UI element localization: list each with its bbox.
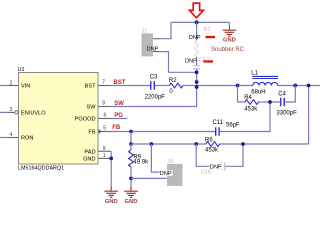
svg-text:DNP: DNP [185, 58, 197, 64]
svg-text:6: 6 [104, 113, 107, 119]
svg-text:BST: BST [85, 84, 96, 90]
node snubber/J1 junction [195, 70, 199, 74]
wire to snubber GND [228, 22, 230, 27]
svg-text:U1: U1 [18, 67, 25, 73]
C2 DNP strike [203, 60, 213, 62]
svg-text:LM5164QDDARQ1: LM5164QDDARQ1 [18, 166, 64, 172]
ground (snubber) [223, 27, 237, 37]
svg-text:DNP: DNP [189, 35, 201, 41]
svg-text:EN/UVLO: EN/UVLO [21, 111, 46, 117]
wire to J5 pin 1 [151, 144, 167, 172]
connector J5 (DNP) [167, 164, 183, 186]
svg-text:Snubber RC: Snubber RC [211, 47, 245, 53]
svg-text:R4: R4 [244, 95, 252, 101]
svg-text:453k: 453k [205, 148, 219, 154]
svg-text:J1: J1 [142, 29, 148, 35]
wire snubber chain vertical [196, 22, 198, 40]
svg-text:453k: 453k [244, 106, 258, 112]
node SW rail junctions at x=197 [195, 80, 199, 84]
connector J1 (DNP) [142, 33, 154, 56]
resistor R2 [169, 83, 183, 88]
node PAD/GND junction [109, 157, 113, 161]
svg-text:FB: FB [112, 125, 121, 131]
op-amp U1 : IC body LM5164QDDARQ1 [19, 73, 99, 165]
wire BST to C3 [111, 85, 151, 87]
pin 4 wire (RON) [0, 137, 9, 139]
svg-text:5: 5 [103, 126, 106, 132]
svg-text:3300pF: 3300pF [276, 110, 297, 116]
pin 5 stub (FB) with arrow [98, 131, 111, 133]
svg-text:0: 0 [169, 89, 173, 95]
wire C3 to R2 [155, 85, 169, 87]
svg-text:C4: C4 [278, 92, 286, 98]
svg-text:DNP: DNP [160, 171, 172, 177]
wire PAD to GND [110, 151, 112, 187]
wire divider row [131, 143, 206, 145]
svg-text:GND: GND [125, 199, 138, 205]
R1 DNP strike [205, 36, 215, 38]
svg-text:SW: SW [86, 105, 96, 111]
ground (under IC) [104, 187, 118, 198]
wire FB line [111, 131, 216, 133]
svg-text:FB: FB [88, 130, 95, 136]
node J5 branch junction [150, 142, 154, 146]
wire R2 to SW node [183, 85, 197, 87]
wire main SW rail to L1 [197, 85, 253, 87]
svg-text:GND: GND [105, 199, 118, 205]
svg-text:7: 7 [102, 80, 105, 86]
wire C11 to corner [220, 102, 270, 132]
svg-text:DNP: DNP [210, 164, 222, 170]
wire R4 to C4 [259, 101, 281, 103]
svg-text:2200pF: 2200pF [145, 95, 166, 101]
capacitor C3 [150, 81, 152, 89]
capacitor C15 (DNP, ghost) [221, 162, 223, 170]
svg-text:68uH: 68uH [251, 89, 265, 95]
wire SW [111, 70, 197, 107]
pin 9 / pin 1 stubs (PAD, GND) [98, 150, 111, 152]
svg-text:49.9k: 49.9k [133, 160, 149, 166]
wire R6 right to VOUT riser [220, 143, 309, 145]
wire PG stub [111, 118, 128, 120]
wire L1 to out [278, 85, 320, 87]
capacitor C2 (DNP, ghost) [193, 65, 200, 67]
wire J1 pin1 riser [160, 22, 171, 38]
node divider top [129, 142, 133, 146]
node C15 branch right [241, 142, 245, 146]
node L network left [236, 84, 240, 88]
svg-text:C15: C15 [201, 170, 211, 176]
ground (under R9) [124, 187, 138, 198]
svg-text:2: 2 [10, 80, 13, 86]
svg-text:RON: RON [21, 136, 33, 142]
wire top rail (snubber) [171, 21, 229, 23]
svg-text:1: 1 [103, 153, 106, 159]
wire J1 pin2 to chain [153, 51, 160, 53]
svg-text:PGOOD: PGOOD [75, 117, 96, 123]
wire C4 up to rail [285, 86, 295, 103]
capacitor C11 [215, 127, 217, 135]
wire RC damp branch left [238, 86, 245, 103]
resistor R1 (DNP, ghost) [195, 41, 199, 57]
node FB junction [129, 130, 133, 134]
svg-text:PAD: PAD [84, 149, 95, 155]
node C15 branch left [194, 142, 198, 146]
resistor R6 [206, 142, 220, 147]
node arrow junction [195, 20, 199, 24]
svg-text:8: 8 [102, 100, 105, 106]
wire SW pin riser [98, 106, 111, 108]
svg-text:J5: J5 [168, 159, 174, 165]
pin 2 wire (VIN) [0, 85, 9, 87]
resistor R4 [245, 100, 259, 105]
svg-text:VIN: VIN [21, 84, 30, 90]
pin 7 stub (BST) [98, 85, 111, 87]
node L right [293, 84, 297, 88]
svg-text:R1: R1 [204, 27, 211, 33]
node R9 bottom junction [129, 177, 133, 181]
pin 3 wire (EN/UVLO) with bubble [0, 111, 9, 113]
svg-text:56pF: 56pF [226, 122, 240, 128]
capacitor C4 [280, 98, 282, 106]
resistor R9 [130, 144, 132, 150]
wire C15 loop [196, 144, 221, 166]
pin 6 stub (PGOOD) [98, 118, 111, 120]
svg-text:4: 4 [10, 132, 13, 138]
svg-text:C3: C3 [150, 75, 158, 81]
probe arrow [189, 3, 203, 18]
svg-text:GND: GND [223, 38, 236, 44]
svg-text:3: 3 [10, 107, 13, 113]
svg-text:DNP: DNP [147, 47, 159, 53]
inductor L1 [252, 76, 278, 85]
svg-text:L1: L1 [251, 71, 258, 77]
svg-text:R2: R2 [169, 78, 177, 84]
svg-text:R6: R6 [205, 138, 213, 144]
wire FB down to divider [130, 132, 132, 145]
node VOUT branch [307, 84, 311, 88]
node R4/C4 mid [268, 100, 272, 104]
svg-text:C11: C11 [213, 120, 224, 126]
wire to J5 pin 2 [131, 177, 167, 179]
svg-text:9: 9 [103, 146, 106, 152]
svg-text:GND: GND [83, 157, 95, 163]
